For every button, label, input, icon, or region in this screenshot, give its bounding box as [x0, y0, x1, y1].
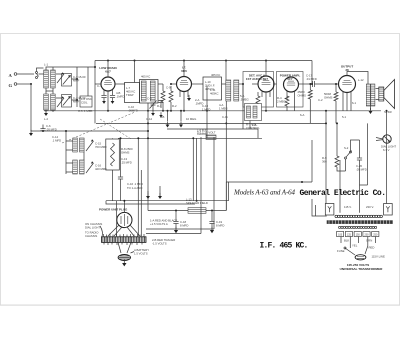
wire: [148, 186, 160, 196]
junction: [147, 130, 149, 132]
svg-text:I.F. 465 KC.: I.F. 465 KC.: [260, 242, 308, 251]
transformer tap terminals: [337, 232, 379, 237]
svg-text:1 MEG: 1 MEG: [219, 107, 228, 111]
wire: [211, 211, 213, 222]
wire: [211, 224, 213, 230]
svg-text:C-9: C-9: [147, 97, 152, 101]
power plug oval (bottom view): [118, 255, 130, 261]
resistor R-1 300 OHMS: [161, 91, 165, 102]
svg-text:1-B: 1-B: [252, 123, 256, 127]
wire G down to AVC bus: [30, 84, 32, 131]
wire V4 pins: [287, 91, 295, 101]
wire up from field line: [225, 182, 227, 211]
ground: [187, 95, 191, 101]
IF-2 winding b: [234, 80, 239, 101]
padder coil row2 a: [73, 160, 78, 174]
capacitor C-10: [159, 101, 164, 109]
tube V4 power detector: [284, 77, 299, 92]
svg-text:250: 250: [373, 233, 378, 236]
speaker: [379, 80, 395, 109]
wire vertical x250: [249, 106, 251, 129]
junction: [147, 122, 149, 124]
wire: [175, 211, 177, 222]
resistor R-3: [256, 96, 260, 107]
RF choke L-9: [206, 135, 216, 139]
coil L-4: [51, 94, 56, 110]
wire: [168, 111, 182, 121]
svg-text:465 KC: 465 KC: [141, 75, 150, 79]
transformer core: [327, 220, 393, 224]
junction: [170, 83, 172, 85]
leader: [131, 252, 135, 254]
wires down to power plug: [138, 138, 141, 236]
junction: [183, 110, 185, 112]
junction: [137, 137, 139, 139]
wire vertical x201: [200, 137, 202, 234]
svg-text:C-7: C-7: [97, 84, 102, 88]
wire coil tops: [46, 67, 53, 70]
svg-text:Models A-63 and A-64: Models A-63 and A-64: [233, 189, 296, 197]
wire V1 cathode to bus: [107, 97, 109, 111]
junction: [265, 60, 267, 62]
svg-text:FUSE: FUSE: [337, 249, 345, 253]
wire switch branch: [337, 123, 346, 171]
wire bus right drop: [311, 61, 313, 85]
svg-text:.1 MFD: .1 MFD: [52, 139, 61, 143]
junction: [301, 181, 303, 183]
page edge shadow: [0, 304, 400, 306]
wire vertical x207: [206, 86, 208, 138]
wire V5 plate to output transformer: [347, 72, 368, 85]
tube V2 6D6 IF amplifier: [177, 66, 192, 92]
wire V2 top cap: [183, 61, 185, 77]
junction: [170, 110, 172, 112]
wire top bus B+: [95, 60, 312, 62]
antenna coil L-2 secondary: [51, 70, 56, 88]
junction: [76, 78, 78, 80]
wire: [116, 201, 118, 236]
svg-text:OHMS: OHMS: [324, 96, 333, 100]
resistor R-8 inside box: [111, 143, 115, 166]
resistor R-5 250M OHMS: [308, 90, 312, 99]
junction: [94, 66, 96, 68]
wires plug to socket: [108, 225, 140, 236]
tube V3 shield box: [243, 72, 274, 108]
svg-text:RED: RED: [369, 246, 375, 250]
antenna link: [36, 72, 39, 79]
wire AVC bus: [31, 130, 148, 132]
svg-text:TO 1-A AND: TO 1-A AND: [127, 186, 142, 190]
wire twin vertical b: [196, 138, 198, 200]
capacitor C-19: [209, 222, 214, 224]
svg-text:8 MFD: 8 MFD: [216, 224, 224, 228]
svg-text:150: 150: [356, 233, 361, 236]
svg-text:465 KC: 465 KC: [211, 73, 220, 77]
wire to output grid: [315, 83, 339, 85]
junction: [225, 60, 227, 62]
wire V2 pins: [180, 91, 188, 98]
svg-text:POWER UNIT PLUG: POWER UNIT PLUG: [99, 208, 128, 212]
wire: [66, 141, 73, 150]
resistor R-9 360 OHMS: [335, 156, 339, 167]
svg-text:C-2: C-2: [318, 98, 323, 102]
padder coil row1 a: [73, 138, 78, 152]
wire vertical x88: [87, 67, 89, 96]
resistor R-4: [285, 96, 289, 106]
svg-text:YEL: YEL: [352, 244, 358, 248]
wire: [66, 163, 73, 172]
svg-text:6-A: 6-A: [300, 113, 304, 117]
wire bus y129: [167, 128, 258, 130]
junction: [65, 130, 67, 132]
capacitor C-7: [101, 96, 106, 98]
wire: [120, 179, 122, 201]
ground: [210, 227, 214, 234]
svg-text:OHMS: OHMS: [298, 94, 307, 98]
svg-text:SPEAKER FIELD: SPEAKER FIELD: [186, 201, 208, 205]
wire: [170, 86, 172, 111]
svg-text:SPKR: SPKR: [384, 110, 392, 114]
wire bus y138: [118, 137, 262, 139]
wire top y67: [53, 66, 95, 68]
wire: [112, 137, 114, 140]
svg-text:115V LINE: 115V LINE: [372, 255, 385, 259]
wire: [309, 84, 311, 123]
wire coil bottoms: [46, 88, 53, 91]
svg-text:.25 MFD: .25 MFD: [121, 161, 132, 165]
svg-text:UNIVERSAL TRANSFORMER: UNIVERSAL TRANSFORMER: [340, 267, 384, 271]
wire: [287, 100, 295, 111]
svg-text:1ST AUDIO 6B7: 1ST AUDIO 6B7: [246, 77, 269, 81]
junction: [335, 83, 337, 85]
wire power lead 1: [146, 228, 214, 230]
leader line: [100, 226, 102, 238]
svg-text:5-1: 5-1: [342, 115, 346, 119]
wave trap box L-7: [125, 83, 140, 103]
tube V3 6B7 det-AVC: [258, 76, 274, 92]
wire V2 grid: [171, 83, 177, 85]
svg-text:6-1: 6-1: [352, 101, 356, 105]
wire V5 pins down: [343, 92, 351, 111]
svg-text:.1MFD: .1MFD: [195, 102, 203, 106]
junction: [386, 110, 388, 112]
wire: [46, 91, 53, 94]
wire vertical x367: [367, 123, 369, 185]
junction: [175, 210, 177, 212]
wire: [158, 83, 163, 85]
gang capacitor dashed link: [62, 112, 135, 143]
svg-text:3-B: 3-B: [160, 115, 164, 119]
wire V3 grid: [252, 83, 258, 85]
capacitor C-8: [110, 96, 115, 98]
wire IF1 bottom: [147, 103, 149, 111]
junction: [325, 122, 327, 124]
svg-text:L-12: L-12: [358, 78, 364, 82]
pilot lamp box left: [325, 204, 334, 216]
svg-text:465KC: 465KC: [210, 92, 219, 96]
svg-text:.5MEG: .5MEG: [240, 98, 249, 102]
resistor R-6 500M OHMS: [334, 92, 338, 101]
svg-text:C-12: C-12: [146, 117, 153, 121]
svg-text:+1.5 VOLTS A: +1.5 VOLTS A: [150, 222, 168, 226]
svg-text:General Electric Co.: General Electric Co.: [300, 189, 386, 198]
IF-1 transformer box: [140, 80, 159, 104]
junction: [206, 110, 208, 112]
tube V5 output 38: [339, 65, 356, 93]
svg-text:8 MFD: 8 MFD: [180, 224, 188, 228]
IF-1 primary L-8: [141, 81, 146, 101]
wire vertical x243: [242, 84, 244, 129]
ground: [158, 193, 162, 199]
wire: [46, 110, 53, 112]
junction: [76, 99, 78, 101]
svg-text:420 MMF: 420 MMF: [95, 167, 107, 171]
ground: [29, 130, 33, 136]
wire box to heater bus: [112, 170, 114, 201]
wire A to link: [17, 73, 34, 75]
wire twin vertical a: [192, 138, 194, 200]
transformer secondary winding: [339, 226, 377, 228]
wire AVC bus 2: [96, 122, 326, 124]
svg-text:GRN: GRN: [366, 239, 372, 243]
junction: [311, 83, 313, 85]
fuse link: [344, 247, 355, 255]
junction: [134, 60, 136, 62]
tube socket strip (side view): [102, 234, 147, 246]
ground: [111, 98, 115, 104]
wire into transformer left: [312, 199, 327, 216]
wire: [106, 201, 121, 204]
junction: [162, 110, 164, 112]
svg-text:L-2: L-2: [44, 117, 48, 121]
wire V1 grid: [95, 83, 101, 85]
wire V2 plate: [192, 83, 204, 85]
junction: [265, 110, 267, 112]
wire link to coil: [37, 68, 44, 74]
wire: [222, 83, 226, 85]
transformer primary winding: [335, 215, 383, 218]
svg-text:G: G: [9, 83, 13, 88]
ground under C-10: [159, 112, 163, 118]
resistor R-2 50M OHMS: [169, 91, 173, 102]
trimmer C-15 arrow: [86, 139, 94, 151]
capacitor C-17 0.01 MFD: [313, 81, 315, 87]
wire: [228, 182, 230, 201]
junction: [211, 210, 213, 212]
wire cluster feeder: [65, 131, 67, 174]
junction: [167, 110, 169, 112]
AC line plug: [355, 255, 366, 260]
output transformer primary L-12: [366, 84, 370, 106]
svg-text:125: 125: [347, 233, 352, 236]
resistor box R-8: [106, 139, 120, 170]
speaker field choke L-13: [188, 208, 206, 214]
wire V2 cathode: [183, 92, 185, 111]
junction: [30, 83, 32, 85]
wire coils to trimmers: [56, 74, 62, 98]
wire long vertical x226: [225, 101, 227, 211]
svg-text:COIL: COIL: [81, 101, 88, 105]
wire: [370, 106, 372, 110]
svg-text:.05MFD: .05MFD: [128, 109, 138, 113]
wire vertical x386: [386, 111, 388, 204]
ground: [122, 260, 126, 267]
osc coil box: [80, 96, 92, 107]
junction: [336, 122, 338, 124]
wire V3 pins: [262, 91, 270, 97]
junction: [325, 110, 327, 112]
IF-2 winding a: [226, 80, 231, 101]
wire V1 plate: [115, 83, 125, 85]
wire V1 pins: [104, 90, 113, 98]
wire speaker field line left: [148, 210, 188, 212]
wire vertical x120: [120, 138, 122, 177]
svg-text:.1MFD: .1MFD: [116, 95, 124, 99]
svg-text:DIAL LIGHT: DIAL LIGHT: [85, 226, 100, 230]
wire cathode-ground bus: [44, 110, 381, 112]
svg-text:OHMS: OHMS: [121, 151, 130, 155]
dial light: [376, 135, 391, 143]
wire IF2 top: [225, 61, 227, 81]
wire IF1 top feed: [134, 61, 136, 83]
wire: [239, 83, 252, 85]
junction: [42, 130, 44, 132]
capacitor C-6 .05 MFD: [40, 129, 45, 131]
ground: [174, 227, 178, 234]
wire G: [17, 83, 31, 85]
wire vertical x258: [257, 129, 259, 138]
ground: [146, 193, 150, 199]
junction: [107, 110, 109, 112]
junction: [180, 110, 182, 112]
wire: [124, 83, 127, 85]
wire V3 top cap: [265, 61, 267, 77]
svg-text:TRAP: TRAP: [126, 93, 134, 97]
junction: [183, 60, 185, 62]
terminal A: [14, 73, 17, 76]
wires to plug: [350, 246, 368, 254]
tube V1 6A7 converter: [99, 66, 116, 91]
junction: [120, 137, 122, 139]
terminal G: [14, 83, 17, 86]
wire: [335, 84, 337, 123]
svg-text:2 MEG: 2 MEG: [277, 100, 286, 104]
tube V4 shield box: [277, 72, 304, 108]
wire: [351, 140, 368, 185]
svg-text:C-11: C-11: [222, 115, 228, 119]
capacitor C-20: [357, 158, 362, 160]
svg-text:BLK: BLK: [344, 239, 349, 243]
svg-text:-1.5 VOLTS: -1.5 VOLTS: [152, 242, 167, 246]
ground: [179, 121, 183, 127]
wires socket to plug oval: [118, 242, 131, 253]
wire heater bus 1: [106, 200, 229, 202]
svg-text:L-1: L-1: [44, 63, 48, 67]
capacitor C-18: [173, 222, 178, 224]
wire vertical x95: [94, 61, 96, 124]
trimmer C-4 box: [62, 95, 72, 108]
gang dashed link 2: [100, 119, 131, 139]
svg-text:R-2: R-2: [172, 104, 177, 108]
svg-text:S-2: S-2: [344, 146, 349, 150]
wire up to switch area: [311, 140, 313, 182]
wire power lead 2: [146, 233, 201, 235]
svg-text:105: 105: [338, 233, 343, 236]
ground under C-9: [151, 110, 155, 116]
pilot lamp box right: [384, 204, 393, 216]
wire V4 plate out: [299, 83, 312, 85]
ground: [369, 108, 373, 114]
svg-text:CHOKE: CHOKE: [197, 132, 207, 136]
svg-text:230 V.: 230 V.: [366, 205, 374, 209]
wire long vertical x148: [147, 111, 149, 211]
junction: [147, 137, 149, 139]
wire long horizontal y182: [226, 181, 312, 183]
antenna coil L-1: [44, 70, 49, 88]
junction: [123, 200, 125, 202]
padder coil row1 b: [80, 138, 85, 152]
wire into plug: [123, 201, 125, 213]
junction: [225, 122, 227, 124]
wire speaker field line right: [206, 210, 226, 212]
wire vertical x77: [76, 67, 78, 107]
on-off switch S-2: [345, 151, 352, 160]
wire transformer to speaker: [376, 89, 379, 100]
svg-text:CHASSIS: CHASSIS: [85, 234, 97, 238]
junction: [147, 110, 149, 112]
wire: [359, 185, 361, 213]
junction: [107, 60, 109, 62]
svg-text:200: 200: [365, 233, 370, 236]
wire: [175, 224, 177, 230]
junction: [242, 83, 244, 85]
power unit plug circle: [117, 212, 132, 227]
trimmer C-16 arrow: [86, 161, 94, 173]
svg-text:115 V.: 115 V.: [344, 205, 352, 209]
wire: [162, 84, 164, 111]
wire V3 cathode: [265, 92, 267, 111]
trimmer capacitor C-9: [150, 101, 157, 111]
IF-2 transformer box: [203, 77, 222, 100]
junction: [192, 137, 194, 139]
padder coil row2 b: [80, 160, 85, 174]
svg-text:10 MEG: 10 MEG: [186, 117, 196, 121]
detector output transformer box: [245, 104, 262, 121]
capacitor C-6a: [118, 177, 123, 179]
wire: [83, 152, 85, 160]
ground: [166, 121, 170, 127]
svg-text:.05 MFD: .05 MFD: [46, 128, 57, 132]
junction: [309, 83, 311, 85]
osc coil L-3: [44, 94, 49, 110]
wire: [42, 125, 44, 132]
wire heater bus 2: [121, 203, 196, 205]
svg-text:700 MMF: 700 MMF: [95, 145, 107, 149]
junction: [196, 200, 198, 202]
trimmer C-3 box: [62, 74, 72, 87]
wire: [257, 92, 259, 111]
svg-text:.05 MFD: .05 MFD: [356, 168, 367, 172]
wire V3 plate: [274, 83, 283, 85]
wire V1 top cap to bus: [107, 61, 109, 78]
wire vertical x326: [325, 111, 327, 204]
svg-text:.01 MFD: .01 MFD: [306, 77, 317, 81]
wire vertical x340: [339, 160, 341, 213]
tuning cap C-2 arrow: [57, 96, 64, 107]
ground: [44, 110, 48, 116]
ground: [102, 98, 106, 104]
output transformer secondary: [371, 84, 375, 106]
